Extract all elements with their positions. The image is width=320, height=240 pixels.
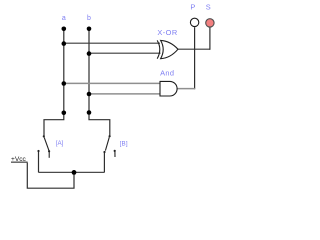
wire XOR output to S bbox=[178, 48, 210, 50]
switch B spare contact dot bbox=[114, 150, 116, 152]
svg-text:P: P bbox=[190, 3, 195, 12]
switch A lever bbox=[44, 137, 49, 150]
junction b bottom bbox=[87, 110, 92, 115]
wire switch B contact stub bbox=[103, 152, 105, 172]
junction a XOR tap bbox=[62, 41, 67, 46]
wire b to XOR bottom input bbox=[89, 52, 161, 54]
output P lamp (off) bbox=[190, 18, 198, 26]
wire P stem bbox=[194, 27, 196, 89]
switch B spare contact stub bbox=[114, 151, 116, 157]
junction b AND tap bbox=[87, 92, 92, 97]
wire S stem bbox=[209, 27, 211, 50]
wire switch rail bbox=[39, 171, 105, 173]
AND gate U2 body bbox=[160, 81, 177, 96]
svg-text:X-OR: X-OR bbox=[157, 28, 177, 37]
wire Vcc down bbox=[27, 163, 74, 189]
switch A left contact dot bbox=[37, 150, 39, 152]
wire a to XOR top input bbox=[64, 42, 160, 44]
XOR gate U1 rear arc bbox=[157, 40, 160, 58]
switch B lever bbox=[105, 137, 109, 150]
wire a vertical bbox=[44, 29, 64, 137]
junction b XOR tap bbox=[87, 51, 92, 56]
svg-text:b: b bbox=[87, 15, 91, 22]
switch A spare contact stub bbox=[48, 152, 50, 158]
wire a to AND top input bbox=[64, 82, 161, 84]
junction a AND tap bbox=[62, 81, 67, 86]
power label underline bbox=[11, 161, 28, 163]
svg-text:And: And bbox=[160, 68, 174, 77]
junction Vcc rail bbox=[72, 170, 77, 175]
wire b vertical bbox=[89, 29, 110, 136]
junction a bottom bbox=[62, 111, 67, 116]
junction b top bbox=[87, 27, 92, 32]
output S lamp (on, red) bbox=[206, 19, 214, 27]
svg-text:a: a bbox=[62, 15, 66, 22]
svg-text:S: S bbox=[206, 3, 211, 12]
switch B left contact dot bbox=[103, 151, 105, 153]
switch B pivot bbox=[109, 135, 111, 137]
svg-text:[B]: [B] bbox=[120, 140, 128, 147]
svg-text:[A]: [A] bbox=[56, 140, 64, 147]
wire switch A contact stub bbox=[38, 151, 40, 173]
switch A lever tip contact bbox=[48, 150, 50, 152]
XOR gate U1 body bbox=[161, 40, 178, 58]
wire AND output to P stem bbox=[177, 88, 195, 90]
junction a top bbox=[62, 27, 67, 32]
switch A pivot bbox=[43, 135, 45, 137]
wire b to AND bottom input bbox=[89, 93, 160, 95]
